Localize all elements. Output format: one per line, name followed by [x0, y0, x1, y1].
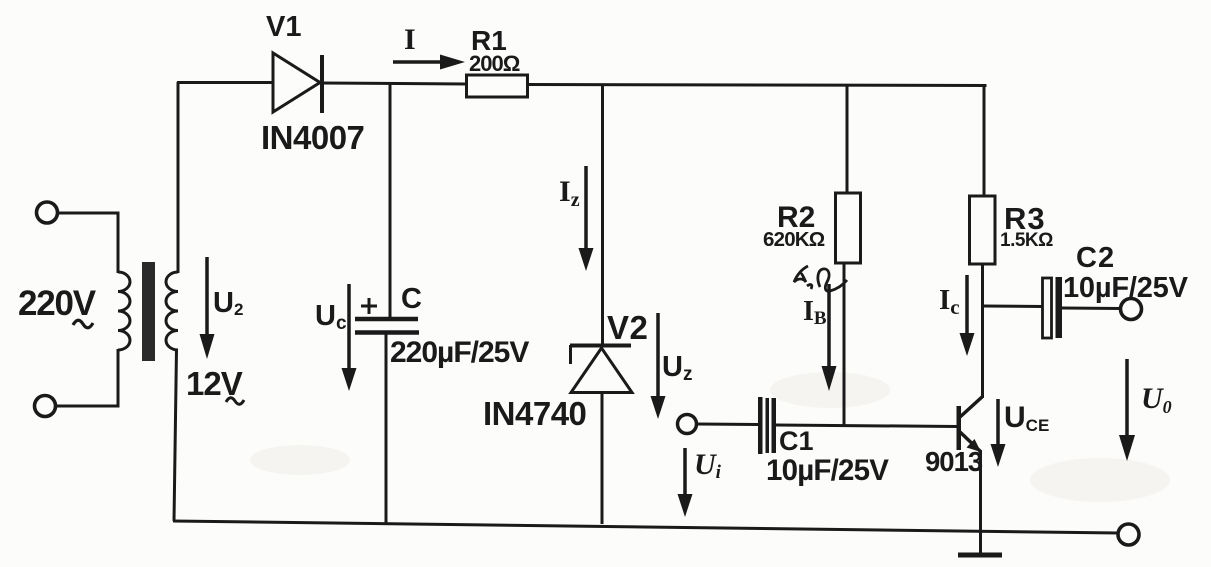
- arrow Uz: [651, 313, 666, 419]
- svg-text:12V: 12V: [186, 365, 243, 402]
- svg-text:10µF/25V: 10µF/25V: [766, 454, 889, 487]
- wire node to resistor R2 top: [846, 85, 849, 194]
- ground: [958, 553, 1002, 558]
- svg-text:IN4007: IN4007: [261, 119, 364, 156]
- wire C2 right plate to output terminal: [1062, 307, 1121, 311]
- svg-text:IB: IB: [803, 296, 827, 329]
- svg-text:200Ω: 200Ω: [469, 51, 520, 76]
- wire capacitor C bottom to bottom rail: [385, 334, 388, 524]
- svg-text:U0: U0: [1141, 382, 1172, 417]
- svg-text:Uc: Uc: [315, 300, 347, 334]
- terminal input top-left: [37, 202, 58, 223]
- arrow UCE: [991, 399, 1006, 467]
- svg-text:V1: V1: [266, 11, 301, 43]
- arrow Ic: [960, 275, 975, 356]
- transformer primary coil: [118, 272, 130, 350]
- svg-text:U2: U2: [213, 287, 243, 319]
- resistor R2: [836, 193, 861, 263]
- wire Ui terminal to C1: [697, 423, 758, 427]
- wire resistor R2 bottom to base wire: [843, 262, 846, 425]
- resistor R1: [467, 75, 528, 97]
- arrow current I: [393, 55, 465, 70]
- resistor R3: [970, 196, 996, 264]
- svg-text:220V: 220V: [18, 284, 97, 323]
- transformer secondary coil: [166, 272, 178, 350]
- transistor Q1 9013: [957, 397, 983, 452]
- wire bottom rail: [173, 521, 1118, 533]
- scan smudges: [250, 372, 1170, 502]
- svg-text:Iz: Iz: [559, 175, 580, 211]
- wire secondary bottom to bottom rail: [174, 349, 177, 521]
- svg-text:620KΩ: 620KΩ: [763, 228, 825, 251]
- wire node to capacitor C top: [389, 84, 392, 318]
- arrow Iz: [579, 166, 594, 271]
- scribble artifact near R2: [794, 266, 847, 291]
- svg-text:IN4740: IN4740: [483, 395, 586, 432]
- svg-text:C2: C2: [1076, 242, 1115, 274]
- svg-text:Ic: Ic: [939, 284, 960, 319]
- svg-text:Ui: Ui: [694, 448, 722, 483]
- wire from top-left terminal to primary top: [58, 213, 118, 273]
- wire from bottom-left terminal to primary bottom: [57, 349, 118, 406]
- wire R3 bottom to collector, through C2 node: [981, 263, 984, 398]
- svg-text:C1: C1: [779, 426, 814, 456]
- terminal input Ui: [678, 415, 697, 434]
- svg-text:UCE: UCE: [1004, 401, 1049, 435]
- svg-text:9013: 9013: [925, 446, 983, 477]
- terminal output right: [1121, 299, 1142, 320]
- plus sign of C: [361, 298, 377, 314]
- wire top rail right segment: [527, 85, 987, 86]
- wire top rail middle segment: [322, 83, 467, 84]
- svg-text:10µF/25V: 10µF/25V: [1063, 272, 1189, 304]
- svg-text:I: I: [404, 23, 416, 56]
- arrow Uo: [1119, 359, 1135, 461]
- arrow IB: [822, 284, 837, 391]
- wire C1 to transistor base: [776, 425, 957, 427]
- wire zener V2 bottom to bottom rail: [601, 392, 604, 524]
- svg-text:1.5KΩ: 1.5KΩ: [1000, 230, 1053, 251]
- zener diode V2: [570, 345, 632, 393]
- svg-text:Uz: Uz: [662, 351, 692, 385]
- terminal input bottom-left: [35, 396, 56, 417]
- tilde under 12V: [226, 398, 244, 405]
- arrow U2: [200, 257, 215, 359]
- wire C2 node to C2 left plate: [983, 305, 1043, 309]
- terminal output bottom-right: [1118, 524, 1139, 545]
- wire node to resistor R3 top: [983, 86, 986, 198]
- svg-text:220µF/25V: 220µF/25V: [390, 336, 529, 369]
- capacitor C1: [758, 397, 776, 454]
- svg-text:C: C: [401, 283, 422, 315]
- diode V1: [273, 53, 322, 113]
- wire emitter down through bottom rail: [979, 450, 982, 553]
- capacitor C2: [1043, 277, 1063, 338]
- wire secondary top to top rail: [177, 82, 180, 273]
- capacitor C: [355, 319, 419, 333]
- arrow Ui: [678, 448, 693, 517]
- wire top rail left segment: [177, 81, 274, 84]
- tilde under 220V: [73, 320, 93, 328]
- arrow Uc: [342, 284, 357, 391]
- svg-text:V2: V2: [607, 309, 648, 346]
- transformer core: [142, 262, 155, 361]
- wire node to zener V2 top: [601, 85, 604, 346]
